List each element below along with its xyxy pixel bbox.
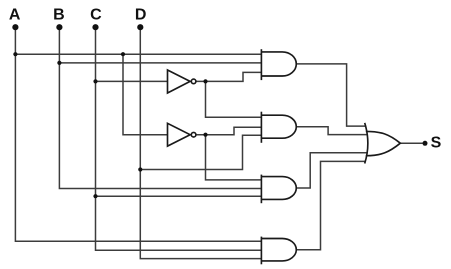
svg-text:B: B bbox=[53, 6, 65, 23]
wire net D vertical from terminal D down to AND4 input 3 bbox=[140, 27, 261, 258]
or-gate U7 (4-input OR) bbox=[365, 123, 401, 164]
junction inverter U2 output bbox=[203, 133, 207, 137]
wire net C vertical from terminal C down to AND4 input 2 bbox=[96, 27, 262, 250]
junction net C at U1 input bbox=[93, 79, 97, 83]
wire OR gate output to terminal S bbox=[400, 142, 422, 144]
wire AND2 output to OR gate input 2 bbox=[296, 127, 366, 135]
junction net C branch bbox=[93, 194, 97, 198]
wire AND1 output to OR gate input 1 bbox=[296, 64, 366, 126]
output terminal S bbox=[423, 141, 428, 146]
svg-text:C: C bbox=[90, 6, 102, 23]
junction net B at bus bbox=[57, 61, 61, 65]
and-gate U4 (AND2) bbox=[261, 112, 296, 143]
input terminal B bbox=[56, 24, 62, 30]
junction net A at bus bbox=[13, 52, 17, 56]
wire net A horizontal bus to AND1 input 1 bbox=[15, 53, 261, 55]
and-gate U5 (AND3) bbox=[261, 175, 296, 204]
wire net A branch down to inverter U2 input bbox=[123, 54, 168, 135]
junction net D branch bbox=[138, 167, 142, 171]
wire net A vertical from terminal A down to bottom row bbox=[15, 27, 261, 241]
inverter U1 (NOT, input C) bbox=[168, 70, 196, 93]
input terminal A bbox=[12, 24, 18, 30]
wire inverter U2 output branch to AND3 input 1 bbox=[206, 135, 262, 180]
wire AND4 output to OR gate input 4 bbox=[296, 161, 366, 249]
junction net A branch to U2 bbox=[121, 52, 125, 56]
wire AND3 output to OR gate input 3 bbox=[296, 153, 366, 188]
svg-text:S: S bbox=[431, 135, 442, 152]
and-gate U6 (AND4) bbox=[261, 237, 296, 265]
wire net D branch to AND2 input 3 bbox=[140, 135, 261, 169]
wire inverter U1 output branch to AND2 input 1 bbox=[206, 81, 262, 117]
wire inverter U2 output to AND2 input 2 bbox=[196, 127, 261, 134]
wire net C branch to AND3 input 3 bbox=[96, 195, 262, 197]
inverter U2 (NOT, input A) bbox=[168, 123, 196, 146]
input terminal C bbox=[92, 24, 98, 30]
wire inverter U1 output to AND1 input 3 bbox=[196, 72, 261, 81]
svg-text:A: A bbox=[9, 6, 21, 23]
wire net B vertical from terminal B down to AND3 input 2 bbox=[59, 27, 261, 188]
wire net C branch to inverter U1 input bbox=[96, 80, 168, 82]
wire net B horizontal bus to AND1 input 2 bbox=[59, 62, 261, 64]
svg-text:D: D bbox=[135, 6, 147, 23]
and-gate U3 (AND1 top) bbox=[261, 49, 296, 80]
input terminal D bbox=[137, 24, 143, 30]
junction inverter U1 output bbox=[203, 79, 207, 83]
